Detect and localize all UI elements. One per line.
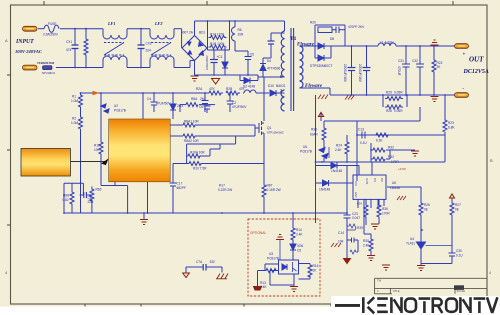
svg-text:R2B: R2B (226, 87, 232, 91)
svg-text:U6: U6 (392, 181, 396, 185)
svg-text:C32: C32 (412, 59, 418, 63)
svg-text:R32: R32 (388, 146, 394, 150)
svg-text:170R: 170R (391, 160, 399, 164)
svg-text:R12: R12 (94, 144, 100, 148)
svg-text:C4: C4 (147, 97, 151, 101)
svg-text:4007 2A: 4007 2A (181, 31, 194, 35)
svg-text:VCC: VCC (354, 181, 357, 186)
svg-text:SCALE: SCALE (457, 289, 466, 293)
svg-text:R26: R26 (424, 203, 430, 207)
svg-text:R88: R88 (63, 194, 69, 198)
svg-text:A: A (5, 38, 8, 43)
svg-text:R2A: R2A (196, 87, 203, 91)
svg-text:1N4148: 1N4148 (319, 188, 330, 192)
svg-text:R6: R6 (238, 28, 242, 32)
svg-text:R1B 120K: R1B 120K (210, 42, 225, 46)
svg-text:C14: C14 (338, 231, 344, 235)
svg-text:0E: 0E (424, 208, 428, 212)
svg-text:+C1: +C1 (217, 55, 223, 59)
svg-text:T1: T1 (290, 36, 297, 42)
svg-text:OUT: OUT (469, 56, 484, 64)
svg-text:TITLE: TITLE (393, 289, 400, 293)
svg-text:LF2: LF2 (154, 21, 162, 26)
svg-text:R36: R36 (382, 207, 388, 211)
svg-text:FUSE: FUSE (48, 22, 57, 26)
svg-text:2: 2 (280, 88, 282, 93)
svg-text:2200UF/16V: 2200UF/16V (358, 64, 362, 83)
svg-text:R20: R20 (310, 21, 316, 25)
svg-text:U2: U2 (114, 104, 118, 108)
svg-text:R8A1 10R: R8A1 10R (184, 120, 199, 124)
svg-text:1.0M: 1.0M (71, 99, 78, 103)
svg-text:OPTIONAL: OPTIONAL (250, 231, 266, 235)
svg-text:ZD1: ZD1 (177, 104, 183, 108)
svg-text:Flyware: Flyware (305, 84, 323, 89)
svg-text:R2: R2 (72, 117, 76, 121)
svg-text:0.22R 2W: 0.22R 2W (218, 188, 232, 192)
svg-text:C6: C6 (250, 53, 254, 57)
svg-text:U3: U3 (269, 252, 273, 256)
svg-text:BD1: BD1 (199, 31, 205, 35)
svg-text:2.4K: 2.4K (335, 148, 342, 152)
svg-text:0.1U: 0.1U (360, 141, 367, 145)
svg-text:0E: 0E (455, 208, 459, 212)
svg-text:Flyware: Flyware (297, 43, 315, 48)
svg-text:170R: 170R (382, 212, 390, 216)
svg-text:C30: C30 (456, 249, 462, 253)
svg-text:2.5A/250V: 2.5A/250V (43, 33, 59, 37)
svg-text:D8: D8 (330, 37, 334, 41)
svg-text:47UF/50V: 47UF/50V (156, 102, 171, 106)
svg-text:OUT1: OUT1 (365, 178, 368, 185)
svg-text:D4: D4 (267, 59, 271, 63)
svg-text:C31: C31 (398, 59, 404, 63)
svg-text:0.05R: 0.05R (394, 91, 403, 95)
svg-text:470UF: 470UF (397, 66, 401, 76)
svg-text:TW: TW (377, 279, 382, 283)
svg-text:PC817B: PC817B (300, 150, 312, 154)
svg-text:NTC10D-9: NTC10D-9 (42, 71, 55, 75)
svg-text:DC12V5A: DC12V5A (463, 69, 489, 75)
svg-text:+4.5V: +4.5V (398, 167, 406, 171)
svg-text:2200UF/16V: 2200UF/16V (343, 64, 347, 83)
svg-text:C7A: C7A (196, 260, 203, 264)
svg-text:GND: GND (354, 192, 357, 198)
svg-text:2.4K: 2.4K (260, 285, 267, 289)
svg-text:R1A 120K: R1A 120K (210, 33, 225, 37)
svg-text:Q1: Q1 (267, 126, 271, 130)
svg-text:2.4K: 2.4K (296, 233, 303, 237)
svg-text:INPUT: INPUT (15, 39, 34, 45)
svg-text:0.047: 0.047 (352, 216, 360, 220)
svg-text:R17: R17 (219, 184, 225, 188)
svg-text:CX2: CX2 (146, 42, 152, 46)
svg-text:4: 4 (489, 271, 491, 275)
svg-text:10K: 10K (94, 148, 101, 152)
svg-text:R10 7.5R: R10 7.5R (193, 167, 207, 171)
svg-text:C6: C6 (199, 105, 203, 109)
svg-text:R10A 10R: R10A 10R (190, 151, 205, 155)
svg-text:R33: R33 (388, 155, 394, 159)
svg-text:47UF/50V: 47UF/50V (232, 105, 247, 109)
svg-text:D2 4148: D2 4148 (243, 85, 255, 89)
svg-text:R30: R30 (363, 239, 369, 243)
svg-text:C5: C5 (297, 249, 301, 253)
svg-text:IN1: IN1 (373, 178, 376, 182)
svg-text:D10: D10 (268, 84, 274, 88)
svg-text:B: B (490, 158, 493, 163)
svg-text:C17: C17 (177, 182, 183, 186)
svg-text:22N: 22N (88, 200, 95, 204)
svg-text:0.82: 0.82 (63, 198, 69, 202)
svg-text:TL431: TL431 (406, 242, 415, 246)
svg-text:R34: R34 (357, 202, 362, 206)
svg-text:R14: R14 (296, 228, 302, 232)
svg-text:100V-240VAC: 100V-240VAC (15, 49, 43, 54)
svg-text:470PF 2KV: 470PF 2KV (348, 25, 365, 29)
svg-text:R87: R87 (267, 184, 273, 188)
svg-text:6.8K: 6.8K (448, 126, 455, 130)
svg-text:LF1: LF1 (107, 21, 115, 26)
svg-text:104: 104 (338, 240, 344, 244)
svg-text:R8A2 10R: R8A2 10R (184, 139, 199, 143)
svg-text:R25: R25 (386, 91, 392, 95)
svg-text:4TTH506: 4TTH506 (267, 67, 281, 71)
svg-text:2.4K: 2.4K (363, 244, 370, 248)
svg-text:10R: 10R (238, 33, 245, 37)
svg-text:47K: 47K (239, 87, 246, 91)
svg-text:R24: R24 (336, 144, 342, 148)
svg-text:IN2: IN2 (380, 178, 383, 182)
svg-text:R8A: R8A (191, 97, 198, 101)
svg-text:STPS30M60CT: STPS30M60CT (310, 64, 332, 68)
svg-text:PC817B: PC817B (267, 257, 279, 261)
svg-text:224: 224 (146, 49, 152, 53)
svg-text:PC817B: PC817B (114, 109, 126, 113)
svg-text:R65: R65 (96, 188, 102, 192)
svg-text:474: 474 (66, 48, 72, 52)
svg-text:CX1: CX1 (66, 40, 72, 44)
svg-text:332: 332 (210, 260, 216, 264)
svg-text:R16: R16 (313, 264, 319, 268)
svg-text:R39: R39 (357, 226, 363, 230)
svg-text:1N4148: 1N4148 (331, 169, 342, 173)
svg-text:2K4: 2K4 (200, 97, 206, 101)
svg-text:100UF/400V: 100UF/400V (205, 55, 209, 70)
svg-text:L1 4.7UH: L1 4.7UH (380, 41, 394, 45)
svg-text:LM358: LM358 (390, 186, 400, 190)
svg-text:634R: 634R (310, 133, 318, 137)
svg-text:1.0M: 1.0M (71, 121, 78, 125)
svg-text:6.2K: 6.2K (376, 139, 383, 143)
svg-text:R23: R23 (448, 121, 454, 125)
svg-text:47K: 47K (209, 87, 216, 91)
svg-text:R26: R26 (386, 109, 392, 113)
svg-text:6: 6 (280, 74, 282, 79)
svg-text:C13: C13 (358, 128, 364, 132)
svg-text:TERMISTOR: TERMISTOR (37, 61, 54, 65)
svg-text:0.15R 2W: 0.15R 2W (267, 188, 281, 192)
svg-text:U5: U5 (303, 145, 307, 149)
svg-text:R1: R1 (72, 95, 76, 99)
svg-text:VD6: VD6 (297, 244, 303, 248)
svg-text:R27: R27 (455, 203, 461, 207)
svg-text:682PF: 682PF (177, 186, 186, 190)
svg-text:STP10NK60Z: STP10NK60Z (267, 131, 284, 135)
svg-text:U4: U4 (410, 237, 414, 241)
svg-text:0.1U: 0.1U (456, 254, 463, 258)
svg-text:R33: R33 (311, 128, 317, 132)
svg-text:0.05R: 0.05R (394, 109, 403, 113)
svg-text:+: + (463, 53, 466, 58)
